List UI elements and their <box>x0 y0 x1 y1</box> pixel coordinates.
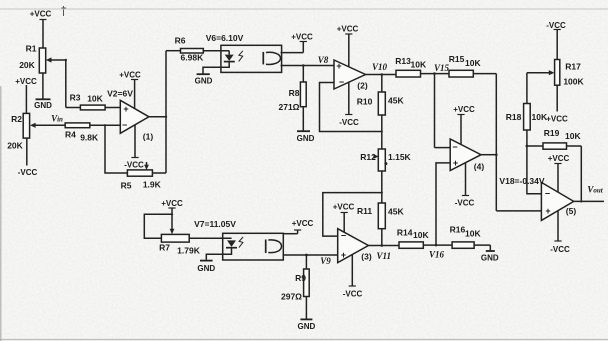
svg-text:(3): (3) <box>361 252 372 262</box>
svg-text:R15: R15 <box>449 54 465 64</box>
power -VCC (U1) <box>134 125 136 158</box>
op-amp U4 (4) <box>450 139 481 171</box>
resistor R12 (trimmer) <box>373 149 387 203</box>
power +VCC (R1 top) <box>42 19 44 48</box>
svg-text:V2=6V: V2=6V <box>107 89 133 99</box>
svg-text:GND: GND <box>297 134 315 143</box>
svg-text:100K: 100K <box>563 77 584 87</box>
svg-text:R7: R7 <box>159 243 170 253</box>
svg-text:45K: 45K <box>388 207 404 217</box>
svg-text:(5): (5) <box>566 206 577 216</box>
potentiometer R1 <box>39 48 51 73</box>
svg-text:GND: GND <box>34 101 52 110</box>
svg-text:+VCC: +VCC <box>333 203 355 212</box>
phototransistor Q1 <box>263 52 280 65</box>
potentiometer R7 <box>161 234 231 242</box>
svg-text:−: − <box>545 188 550 198</box>
power +VCC (R7) <box>170 208 175 235</box>
svg-text:R19: R19 <box>544 128 560 138</box>
resistor R4 <box>65 123 120 128</box>
svg-text:V15: V15 <box>434 63 450 73</box>
svg-text:271Ω: 271Ω <box>279 102 300 112</box>
svg-text:R12: R12 <box>360 152 376 162</box>
svg-text:+VCC: +VCC <box>161 199 183 208</box>
svg-text:R14: R14 <box>397 228 413 238</box>
svg-text:Vin: Vin <box>51 114 63 124</box>
scan artifact left border <box>0 86 2 341</box>
svg-text:−: − <box>122 120 127 130</box>
resistor R6 <box>166 49 229 54</box>
power +VCC (U1) <box>134 79 136 109</box>
power +VCC (U3) <box>348 34 350 68</box>
power -VCC (U5) <box>557 211 559 242</box>
svg-text:V16: V16 <box>429 250 445 260</box>
svg-text:−: − <box>452 142 457 152</box>
op-amp U5 (5) <box>541 182 573 220</box>
svg-text:-VCC: -VCC <box>455 199 475 208</box>
resistor R3 <box>66 105 121 110</box>
svg-text:+VCC: +VCC <box>291 33 313 42</box>
wire U1 output <box>149 51 166 173</box>
wire Q2 collector <box>283 233 297 235</box>
wire R7 rheostat loop <box>144 214 172 238</box>
power -VCC (R17 bottom) <box>556 85 558 111</box>
svg-text:GND: GND <box>195 77 213 86</box>
svg-text:20K: 20K <box>19 60 35 70</box>
resistor R10 <box>378 92 385 149</box>
svg-text:GND: GND <box>298 322 316 331</box>
svg-text:−: − <box>341 231 346 241</box>
svg-text:R9: R9 <box>295 273 306 283</box>
svg-text:R5: R5 <box>121 181 132 191</box>
power +VCC (U5) <box>557 163 559 192</box>
potentiometer R2 <box>23 113 35 138</box>
svg-text:V9: V9 <box>320 256 331 266</box>
LED D2 <box>206 240 237 260</box>
svg-text:+: + <box>123 104 128 114</box>
op-amp U7 (3) <box>338 229 369 263</box>
wire Vout <box>574 200 604 202</box>
svg-text:+: + <box>341 250 346 260</box>
resistor R15 <box>449 70 496 77</box>
svg-text:+VCC: +VCC <box>15 77 37 86</box>
svg-text:R8: R8 <box>289 88 300 98</box>
potentiometer R17 <box>527 60 560 104</box>
svg-text:10K: 10K <box>532 112 548 122</box>
scan artifact bottom border <box>0 339 608 341</box>
power +VCC (U7) <box>343 212 345 232</box>
svg-text:V6=6.10V: V6=6.10V <box>206 33 244 43</box>
svg-text:Vout: Vout <box>587 185 603 195</box>
svg-text:45K: 45K <box>388 96 404 106</box>
power +VCC (R2 top) <box>25 85 27 113</box>
svg-text:−: − <box>339 77 344 87</box>
svg-text:1.15K: 1.15K <box>388 152 412 162</box>
svg-text:+: + <box>336 61 341 71</box>
resistor R8 <box>300 66 306 131</box>
wire junction to U5 inverting input <box>527 146 542 194</box>
svg-text:+: + <box>545 206 550 216</box>
light arrow U6 <box>239 237 243 248</box>
svg-text:20K: 20K <box>7 141 23 151</box>
power +VCC (R17 top) <box>556 30 558 60</box>
wire R1 wiper to R3 <box>51 60 66 108</box>
wire node V11 <box>368 245 399 247</box>
power +VCC (U4) <box>460 114 462 145</box>
svg-text:V10: V10 <box>372 62 388 72</box>
svg-text:10K: 10K <box>411 60 427 70</box>
power +VCC (Q2 collector) <box>297 230 299 234</box>
svg-text:10K: 10K <box>87 94 103 104</box>
power +VCC (Q1 collector) <box>302 41 304 53</box>
scan artifact top border <box>0 8 608 10</box>
svg-text:R2: R2 <box>11 114 22 124</box>
ground (LED D1) <box>197 73 210 75</box>
svg-text:(2): (2) <box>357 81 368 91</box>
wire U4 output node V18 <box>481 155 541 211</box>
svg-text:V7=11.05V: V7=11.05V <box>194 219 236 229</box>
wire Q1 collector <box>281 52 304 54</box>
svg-text:(4): (4) <box>474 162 485 172</box>
svg-text:-VCC: -VCC <box>339 118 359 127</box>
wire U7 feedback <box>323 193 382 237</box>
wire node V15 <box>434 74 436 148</box>
svg-text:-VCC: -VCC <box>124 161 144 170</box>
resistor R16 <box>452 242 490 251</box>
svg-text:297Ω: 297Ω <box>281 292 302 302</box>
wire node V8 (Q1 emitter) <box>281 65 335 67</box>
ground (R8) <box>297 130 310 132</box>
svg-text:+VCC: +VCC <box>337 25 359 34</box>
svg-text:+VCC: +VCC <box>30 10 52 19</box>
ground (below R1) <box>36 73 51 99</box>
wire R15 to U4 output <box>495 74 497 211</box>
svg-text:-VCC: -VCC <box>546 21 566 30</box>
svg-text:-VCC: -VCC <box>343 290 363 299</box>
wire U4 inverting input <box>435 147 451 149</box>
optocoupler box U6 <box>223 233 284 260</box>
wire node V9 (Q2 emitter) <box>283 254 337 256</box>
svg-text:10K: 10K <box>413 230 429 240</box>
svg-text:V18=-0.34V: V18=-0.34V <box>499 176 544 186</box>
svg-text:10K: 10K <box>565 131 581 141</box>
power terminal caps <box>131 30 562 287</box>
svg-text:(1): (1) <box>143 132 154 142</box>
resistor R14 <box>399 242 452 248</box>
ground (LED D2) <box>200 260 213 262</box>
svg-text:R16: R16 <box>450 225 466 235</box>
svg-text:R10: R10 <box>357 97 373 107</box>
svg-text:R6: R6 <box>175 36 186 46</box>
svg-text:+: + <box>453 158 458 168</box>
phototransistor Q2 <box>266 240 282 254</box>
svg-text:+VCC: +VCC <box>546 115 568 124</box>
svg-text:10K: 10K <box>465 229 481 239</box>
wire U3 feedback <box>320 83 382 132</box>
svg-text:1.79K: 1.79K <box>177 246 201 256</box>
svg-text:6.98K: 6.98K <box>181 53 205 63</box>
svg-text:R3: R3 <box>70 93 81 103</box>
scan artifact stray mark <box>62 6 67 16</box>
svg-text:9.8K: 9.8K <box>80 133 99 143</box>
resistor R13 <box>396 70 449 77</box>
svg-text:R4: R4 <box>65 130 76 140</box>
node Vin wire <box>35 124 65 126</box>
power -VCC (U3) <box>348 82 350 115</box>
svg-text:R13: R13 <box>395 56 411 66</box>
svg-text:10K: 10K <box>465 58 481 68</box>
svg-text:GND: GND <box>481 254 499 263</box>
svg-text:1.9K: 1.9K <box>143 180 162 190</box>
svg-text:+VCC: +VCC <box>548 154 570 163</box>
optocoupler box U2 <box>221 45 282 72</box>
svg-text:V11: V11 <box>377 251 392 261</box>
resistor R19 <box>527 143 581 202</box>
svg-text:GND: GND <box>197 264 215 273</box>
wire cap under +VCC top-left <box>40 19 47 21</box>
ground (R9) <box>300 318 312 320</box>
svg-text:+VCC: +VCC <box>453 105 475 114</box>
resistor R9 <box>304 255 310 319</box>
light arrow U2 <box>239 51 243 62</box>
svg-text:R17: R17 <box>565 62 581 72</box>
svg-text:R11: R11 <box>357 206 372 216</box>
svg-text:R1: R1 <box>26 44 37 54</box>
svg-text:-VCC: -VCC <box>550 245 570 254</box>
op-amp U1 (1) <box>120 100 149 133</box>
svg-text:+VCC: +VCC <box>292 219 314 228</box>
resistor R11 <box>378 203 385 246</box>
wire U4 noninverting input to V16 <box>436 163 450 245</box>
potentiometer R5 (feedback) <box>105 125 166 176</box>
power -VCC (R2 bottom) <box>26 138 28 165</box>
resistor R18 <box>524 104 531 147</box>
power -VCC (U7) <box>351 255 353 287</box>
ground (R16) <box>486 250 495 252</box>
svg-text:-VCC: -VCC <box>18 168 38 177</box>
power -VCC (U4) <box>465 163 467 196</box>
svg-text:V8: V8 <box>318 55 329 65</box>
op-amp U3 (2) <box>334 60 366 89</box>
LED D1 <box>203 51 235 74</box>
svg-text:R18: R18 <box>506 112 522 122</box>
svg-text:+VCC: +VCC <box>119 71 141 80</box>
wire node V10 <box>366 75 397 93</box>
